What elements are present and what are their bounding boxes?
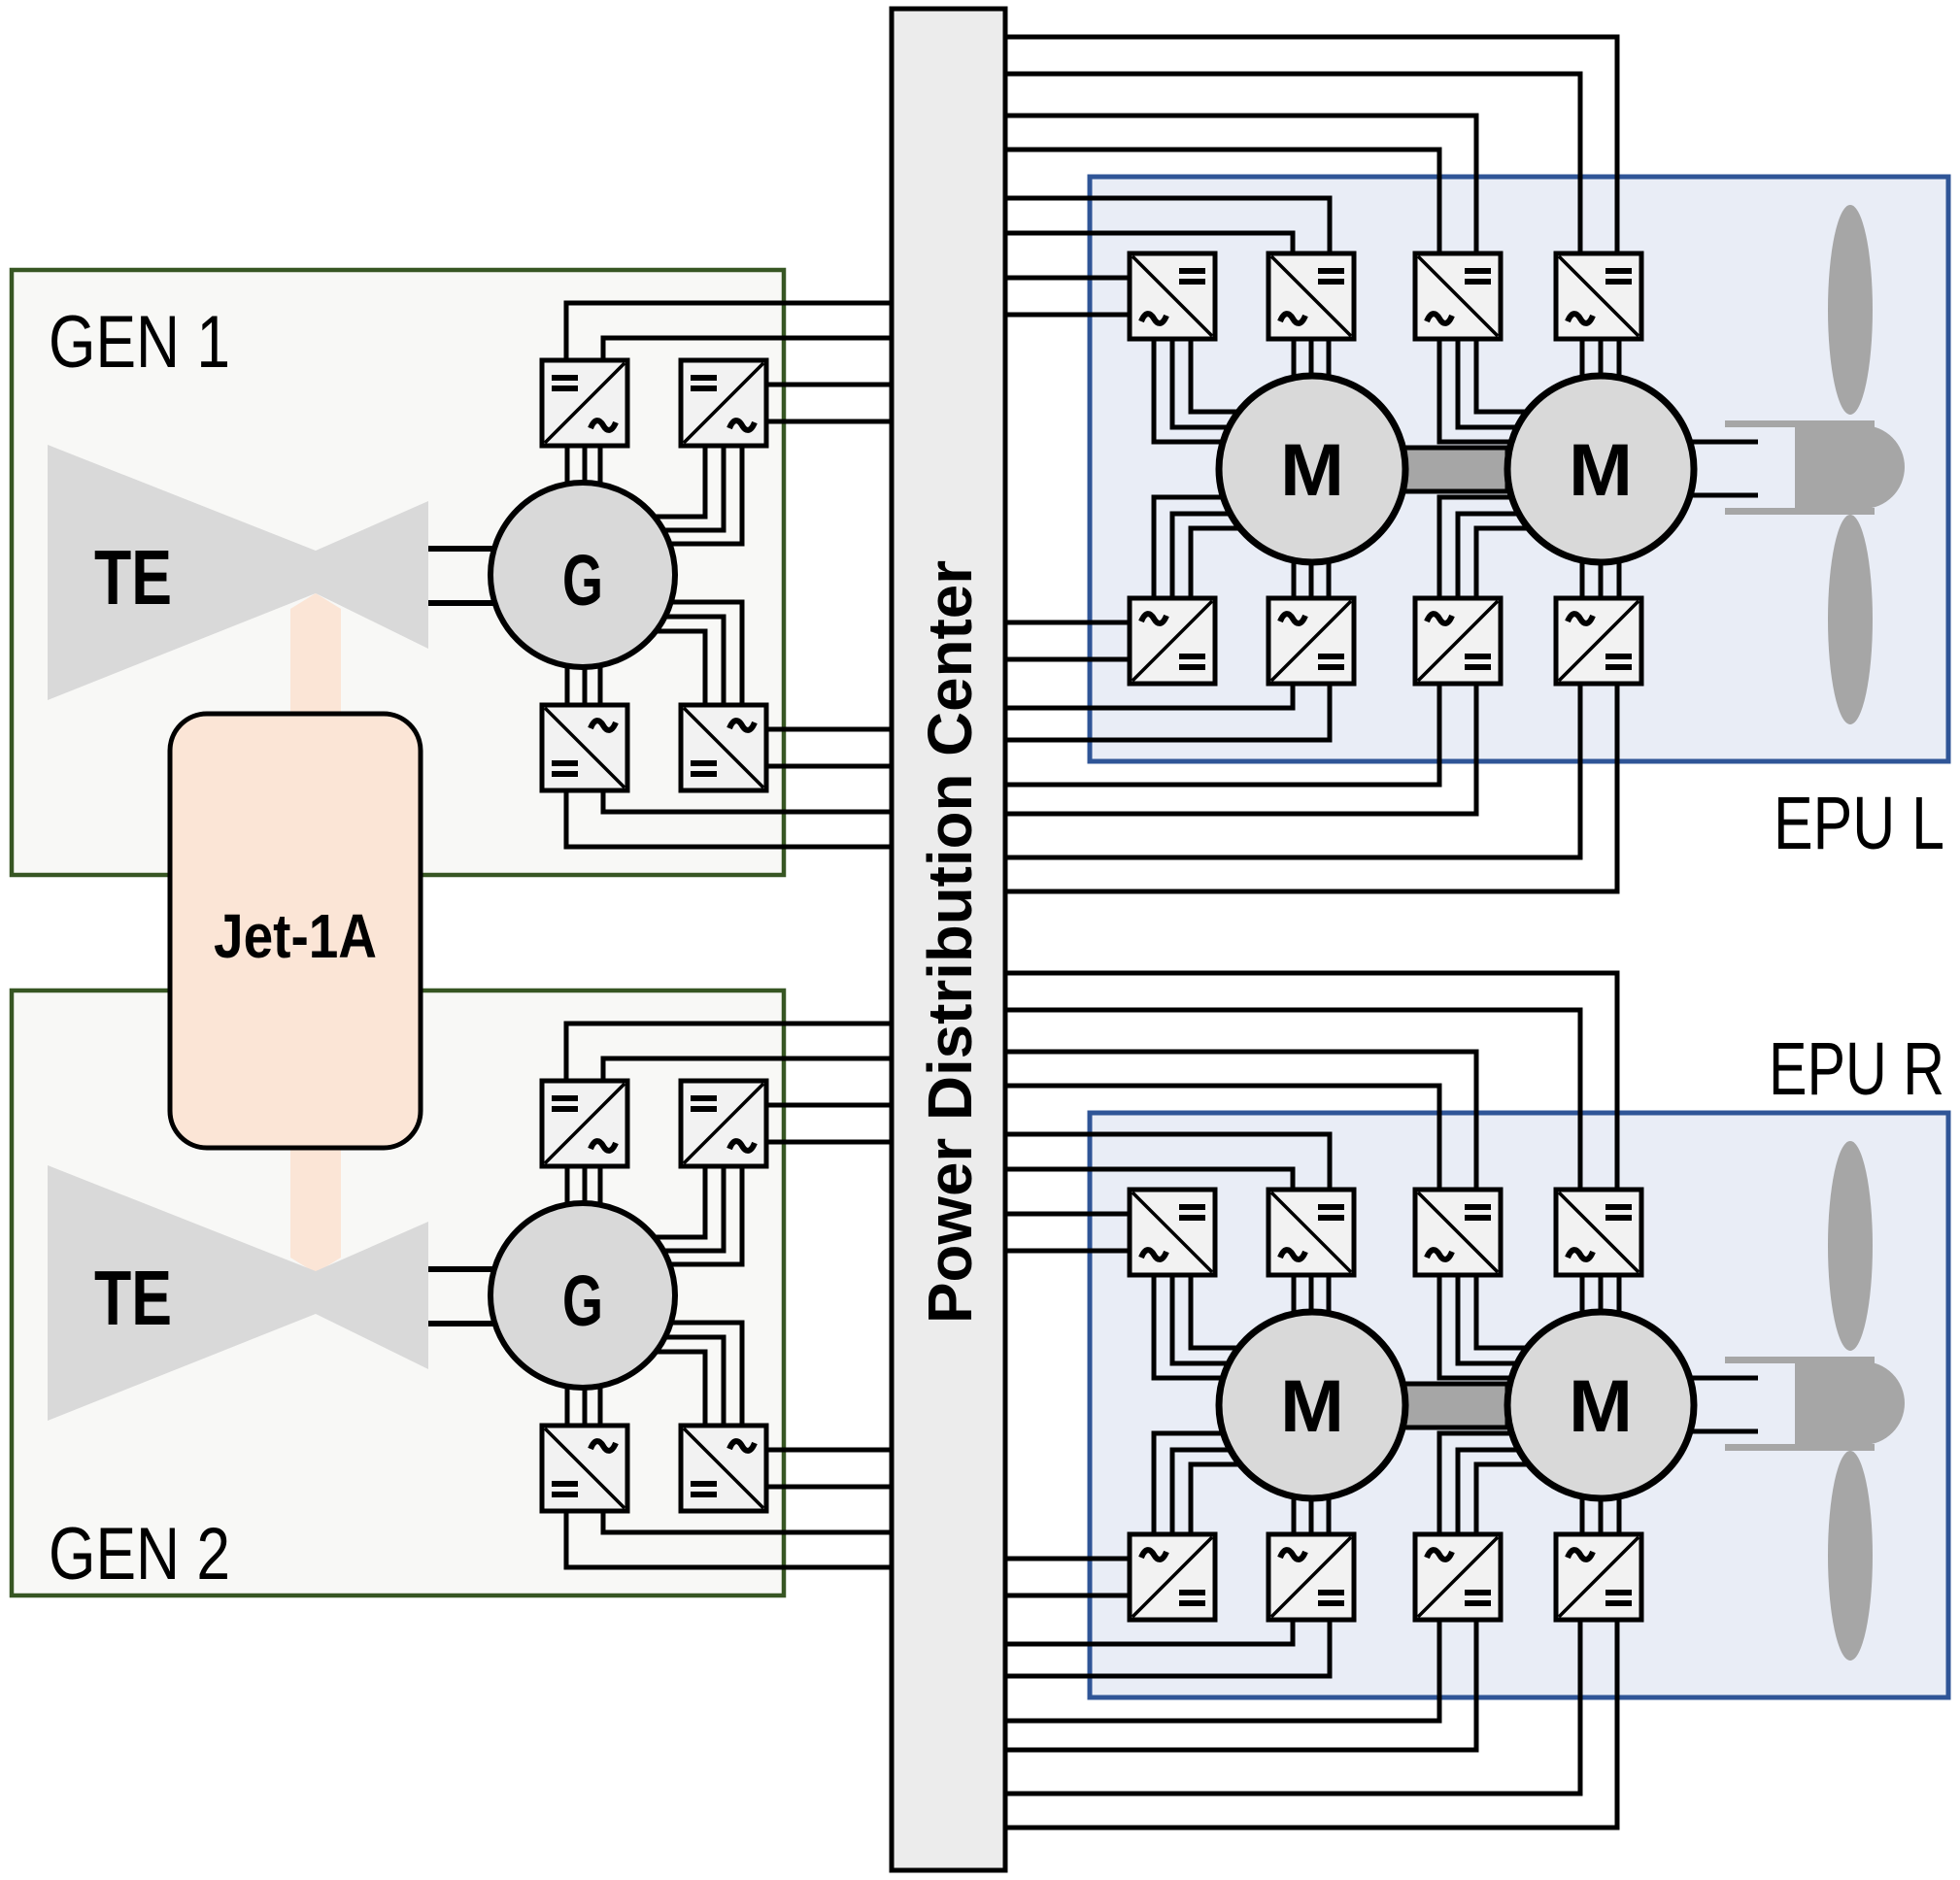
generator G of GEN2: [490, 1203, 675, 1388]
wire EPUL conv4 AC b: [1599, 339, 1604, 379]
svg-text:EPU L: EPU L: [1774, 782, 1944, 865]
fuel tank Jet-1A box: [170, 714, 421, 1148]
wire EPUR conv1 DC upper: [1005, 1212, 1130, 1217]
Power Distribution Center bus bar: [892, 9, 1005, 1870]
converter GEN2 bottom-left (AC/DC): [542, 1426, 627, 1511]
propeller hub of EPUL: [1795, 425, 1905, 509]
wire EPUR conv1 AC b: [1172, 1275, 1233, 1363]
wire EPUR conv6 AC b: [1309, 1495, 1314, 1534]
wire GEN2 shaft upper: [428, 1266, 497, 1272]
wire EPUL conv2 AC b: [1309, 339, 1314, 379]
wire EPUL conv6 DC right: [1005, 682, 1330, 740]
wire EPUL conv3 AC b: [1458, 339, 1522, 427]
converter GEN1 bottom-right (AC/DC): [681, 705, 766, 790]
wire EPUL conv6 AC a: [1292, 557, 1297, 598]
motor coupling shaft of EPUL: [1403, 448, 1507, 491]
fuel arrow down to GEN 2 turbine: [290, 1146, 341, 1273]
wire GEN1 shaft upper: [428, 546, 497, 552]
wire EPUR conv6 DC right: [1005, 1618, 1330, 1676]
wire GEN2 TL conv AC c: [598, 1166, 603, 1206]
converter EPUL top 2 (DC/AC): [1268, 253, 1354, 339]
wire EPUR conv3 AC c: [1476, 1275, 1531, 1348]
svg-text:TE: TE: [94, 534, 172, 621]
wire EPUL conv5 AC c: [1191, 528, 1240, 598]
wire EPUR conv8 DC left: [1005, 1618, 1580, 1794]
wire EPUL conv1 AC a: [1154, 339, 1227, 442]
wire GEN2 TR conv AC c: [666, 1166, 742, 1264]
wire EPUL conv2 DC right: [1005, 198, 1330, 255]
wire EPUR conv1 AC c: [1191, 1275, 1242, 1348]
wire EPUR conv4 DC left: [1005, 1010, 1580, 1192]
wire EPUL conv6 AC b: [1309, 559, 1314, 598]
svg-text:GEN 1: GEN 1: [49, 301, 230, 384]
wire EPUL conv1 DC lower: [1005, 313, 1130, 318]
wire GEN2 TL conv DC right: [603, 1058, 892, 1083]
wire EPUL conv3 DC right: [1005, 116, 1476, 255]
wire EPUR conv2 AC a: [1292, 1275, 1297, 1317]
wire GEN2 BR conv AC b: [660, 1337, 724, 1426]
wire EPUL conv5 AC a: [1154, 497, 1227, 598]
wire GEN1 BR conv DC upper: [766, 727, 892, 732]
wire EPUL conv2 AC c: [1327, 339, 1332, 381]
wire EPUR conv1 AC a: [1154, 1275, 1227, 1378]
wire EPUL conv6 AC c: [1327, 557, 1332, 598]
converter EPUL top 1 (DC/AC): [1130, 253, 1215, 339]
wire GEN2 TR conv DC lower: [766, 1140, 892, 1145]
wire EPUR conv5 AC c: [1191, 1464, 1240, 1534]
wire EPUR conv2 AC c: [1327, 1275, 1332, 1317]
wire EPUR conv8 AC a: [1580, 1494, 1585, 1534]
propeller bracket of EPUR: [1725, 1357, 1875, 1363]
wire EPUR conv5 AC a: [1154, 1433, 1227, 1534]
converter EPUL top 3 (DC/AC): [1415, 253, 1501, 339]
wire EPUR conv2 DC left: [1005, 1169, 1293, 1192]
wire GEN1 TR conv AC a: [651, 446, 705, 517]
converter EPUL bottom 8 (AC/DC): [1556, 598, 1641, 684]
wire EPUL conv7 DC left: [1005, 682, 1439, 785]
wire GEN2 TR conv AC a: [651, 1166, 705, 1237]
wire EPUL conv3 AC a: [1439, 339, 1515, 442]
wire GEN1 TL conv AC b: [583, 446, 588, 484]
wire GEN1 BR conv AC a: [667, 602, 742, 705]
svg-text:Jet-1A: Jet-1A: [214, 901, 377, 971]
wire EPUR conv3 AC a: [1439, 1275, 1515, 1378]
wire EPUL conv4 DC left: [1005, 74, 1580, 255]
svg-text:Power Distribution Center: Power Distribution Center: [915, 560, 985, 1324]
wire EPUR conv4 AC a: [1580, 1275, 1585, 1317]
converter GEN1 top-right (DC/AC): [681, 360, 766, 446]
converter EPUR top 2 (DC/AC): [1268, 1190, 1354, 1275]
wire EPUR conv2 AC b: [1309, 1275, 1314, 1315]
EPU R box: [1090, 1113, 1948, 1697]
wire EPUL conv4 AC a: [1580, 339, 1585, 381]
GEN 2 box: [12, 990, 784, 1595]
converter EPUR top 1 (DC/AC): [1130, 1190, 1215, 1275]
wire EPUL conv5 AC b: [1172, 514, 1233, 598]
wire EPUR conv3 DC right: [1005, 1052, 1476, 1192]
EPU L box: [1090, 177, 1948, 761]
wire GEN2 BL conv AC a: [565, 1387, 570, 1426]
wire GEN1 BL conv AC c: [598, 666, 603, 705]
wire EPUR conv7 AC c: [1476, 1464, 1529, 1534]
wire GEN2 BR conv AC a: [667, 1323, 742, 1426]
converter EPUR bottom 6 (AC/DC): [1268, 1534, 1354, 1620]
wire GEN2 BL conv AC c: [598, 1387, 603, 1426]
motor M right of EPUR: [1507, 1312, 1694, 1498]
wire GEN2 BL conv DC left: [566, 1509, 892, 1567]
svg-text:M: M: [1569, 1365, 1633, 1448]
wire EPUL conv2 AC a: [1292, 339, 1297, 381]
wire GEN2 BL conv AC b: [583, 1389, 588, 1426]
wire GEN1 TL conv DC right: [603, 338, 892, 362]
wire EPUR conv6 DC left: [1005, 1618, 1293, 1644]
propeller blade top of EPUR: [1828, 1141, 1873, 1351]
wire GEN2 TL conv AC a: [565, 1166, 570, 1206]
propeller blade bottom of EPUR: [1828, 1451, 1873, 1661]
wire GEN2 shaft lower: [428, 1321, 497, 1326]
wire EPUL conv7 AC b: [1458, 514, 1522, 598]
wire GEN1 TR conv AC b: [659, 446, 724, 530]
converter EPUL top 4 (DC/AC): [1556, 253, 1641, 339]
wire EPUR conv1 DC lower: [1005, 1249, 1130, 1254]
wire EPUL conv8 AC b: [1599, 559, 1604, 598]
converter EPUL bottom 6 (AC/DC): [1268, 598, 1354, 684]
wire EPUR conv7 AC a: [1439, 1433, 1515, 1534]
wire EPUR conv7 DC left: [1005, 1618, 1439, 1721]
svg-text:EPU R: EPU R: [1769, 1027, 1944, 1111]
motor M right of EPUL: [1507, 376, 1694, 562]
wire EPUR conv8 AC b: [1599, 1495, 1604, 1534]
wire GEN1 BL conv DC left: [566, 789, 892, 847]
wire EPUL conv7 AC a: [1439, 497, 1515, 598]
wire EPUR conv5 DC upper: [1005, 1557, 1130, 1561]
wire EPUR prop shaft upper: [1688, 1376, 1758, 1381]
wire EPUL conv4 AC c: [1617, 339, 1622, 381]
converter EPUL bottom 5 (AC/DC): [1130, 598, 1215, 684]
generator G of GEN1: [490, 483, 675, 667]
wire GEN1 TR conv AC c: [666, 446, 742, 544]
wire EPUL conv3 AC c: [1476, 339, 1531, 412]
wire EPUL conv1 AC c: [1191, 339, 1242, 412]
wire EPUR conv6 AC a: [1292, 1494, 1297, 1534]
converter GEN1 top-left (DC/AC): [542, 360, 627, 446]
wire EPUR conv5 DC lower: [1005, 1594, 1130, 1598]
svg-text:M: M: [1280, 429, 1344, 512]
converter GEN2 top-right (DC/AC): [681, 1081, 766, 1166]
wire EPUR conv7 DC right: [1005, 1618, 1476, 1750]
wire EPUR conv4 AC c: [1617, 1275, 1622, 1317]
wire EPUL conv7 DC right: [1005, 682, 1476, 814]
wire EPUR conv2 DC right: [1005, 1134, 1330, 1192]
converter EPUL bottom 7 (AC/DC): [1415, 598, 1501, 684]
converter EPUR bottom 8 (AC/DC): [1556, 1534, 1641, 1620]
svg-text:G: G: [562, 1260, 603, 1341]
propeller bracket of EPUL: [1725, 420, 1875, 427]
wire EPUL conv5 DC lower: [1005, 657, 1130, 662]
wire GEN1 TL conv AC a: [565, 446, 570, 486]
wire EPUL conv1 DC upper: [1005, 276, 1130, 281]
wire GEN1 BL conv AC a: [565, 666, 570, 705]
converter EPUR bottom 7 (AC/DC): [1415, 1534, 1501, 1620]
wire GEN1 shaft lower: [428, 600, 497, 606]
wire GEN1 BL conv AC b: [583, 668, 588, 705]
propeller hub of EPUR: [1795, 1361, 1905, 1445]
propeller blade bottom of EPUL: [1828, 515, 1873, 724]
wire EPUR conv6 AC c: [1327, 1494, 1332, 1534]
wire GEN2 TL conv AC b: [583, 1166, 588, 1204]
svg-text:M: M: [1280, 1365, 1344, 1448]
wire GEN1 BL conv DC right: [603, 789, 892, 812]
wire EPUL prop shaft lower: [1688, 493, 1758, 498]
wire EPUL conv4 DC right: [1005, 37, 1617, 255]
wire EPUR conv5 AC b: [1172, 1450, 1233, 1534]
turbine engine TE of GEN1: [48, 445, 428, 700]
converter EPUR bottom 5 (AC/DC): [1130, 1534, 1215, 1620]
motor M left of EPUL: [1219, 376, 1405, 562]
wire EPUL conv8 DC right: [1005, 682, 1617, 891]
converter GEN1 bottom-left (AC/DC): [542, 705, 627, 790]
wire GEN1 BR conv AC b: [660, 617, 724, 705]
wire EPUR prop shaft lower: [1688, 1429, 1758, 1434]
wire EPUR conv3 AC b: [1458, 1275, 1522, 1363]
wire GEN2 TR conv AC b: [659, 1166, 724, 1251]
wire EPUL prop shaft upper: [1688, 440, 1758, 445]
wire EPUR conv8 AC c: [1617, 1494, 1622, 1534]
wire EPUL conv7 AC c: [1476, 528, 1529, 598]
wire GEN2 BL conv DC right: [603, 1509, 892, 1532]
motor coupling shaft of EPUR: [1403, 1384, 1507, 1427]
fuel arrow up to GEN 1 turbine: [290, 593, 341, 719]
wire EPUR conv8 DC right: [1005, 1618, 1617, 1828]
wire GEN1 BR conv DC lower: [766, 764, 892, 769]
wire EPUL conv8 DC left: [1005, 682, 1580, 857]
wire EPUL conv6 DC left: [1005, 682, 1293, 708]
wire EPUL conv8 AC c: [1617, 557, 1622, 598]
wire GEN1 TL conv AC c: [598, 446, 603, 486]
wire EPUR conv7 AC b: [1458, 1450, 1522, 1534]
turbine engine TE of GEN2: [48, 1165, 428, 1421]
wire EPUL conv1 AC b: [1172, 339, 1233, 427]
wire GEN2 BR conv DC lower: [766, 1485, 892, 1490]
svg-text:G: G: [562, 540, 603, 621]
GEN 1 box: [12, 270, 784, 875]
wire EPUL conv3 DC left: [1005, 150, 1439, 255]
svg-text:TE: TE: [94, 1255, 172, 1341]
wire GEN2 BR conv AC c: [652, 1352, 705, 1426]
converter EPUR top 3 (DC/AC): [1415, 1190, 1501, 1275]
wire EPUL conv8 AC a: [1580, 557, 1585, 598]
wire GEN2 BR conv DC upper: [766, 1448, 892, 1453]
svg-text:M: M: [1569, 429, 1633, 512]
wire GEN1 TR conv DC lower: [766, 420, 892, 424]
wire GEN1 BR conv AC c: [652, 631, 705, 705]
wire GEN1 TL conv DC left: [566, 303, 892, 362]
motor M left of EPUR: [1219, 1312, 1405, 1498]
wire EPUR conv4 AC b: [1599, 1275, 1604, 1315]
wire EPUR conv4 DC right: [1005, 973, 1617, 1192]
converter GEN2 bottom-right (AC/DC): [681, 1426, 766, 1511]
wire GEN2 TL conv DC left: [566, 1024, 892, 1083]
propeller blade top of EPUL: [1828, 205, 1873, 415]
wire GEN2 TR conv DC upper: [766, 1103, 892, 1108]
svg-text:GEN 2: GEN 2: [49, 1513, 230, 1595]
wire EPUR conv3 DC left: [1005, 1086, 1439, 1192]
wire EPUL conv5 DC upper: [1005, 621, 1130, 625]
converter GEN2 top-left (DC/AC): [542, 1081, 627, 1166]
wire GEN1 TR conv DC upper: [766, 383, 892, 387]
converter EPUR top 4 (DC/AC): [1556, 1190, 1641, 1275]
wire EPUL conv2 DC left: [1005, 233, 1293, 255]
